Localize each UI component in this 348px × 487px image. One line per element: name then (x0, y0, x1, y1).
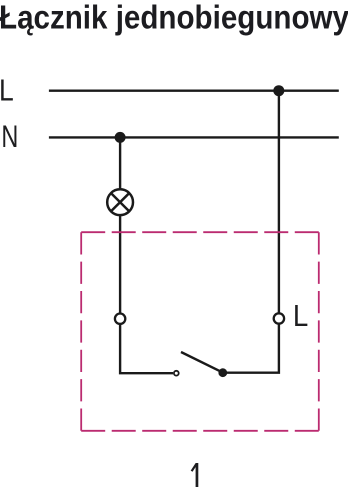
lamp E1 (cross stroke 2) (111, 193, 129, 211)
net label L (line L) (0, 73, 14, 107)
enclosure dashed box: top edge (81, 231, 319, 233)
wire: lamp down to left terminal (119, 215, 121, 314)
svg-text:Łącznik jednobiegunowy: Łącznik jednobiegunowy (0, 0, 348, 36)
wire: N supply line (49, 136, 339, 138)
net label N (line N) (1, 119, 18, 154)
svg-text:N: N (1, 119, 18, 154)
terminal label L (inside box) (293, 299, 308, 334)
wire: left terminal down and right to switch contact (120, 324, 173, 373)
wire: L supply line (49, 89, 339, 91)
lamp E1 (cross stroke 1) (111, 193, 129, 211)
wire: N junction down to lamp (119, 137, 121, 189)
enclosure dashed box: bottom edge (81, 430, 319, 432)
wire: right terminal up to L junction (278, 91, 280, 314)
junction on N line (115, 132, 126, 143)
lamp E1 (circle) (107, 189, 133, 215)
enclosure dashed box: left edge (80, 232, 82, 431)
svg-text:L: L (0, 73, 14, 107)
switch fixed contact (small open circle) (174, 371, 179, 376)
label 1 (gang number) (192, 463, 197, 487)
terminal (left, open circle) (115, 314, 125, 324)
terminal (right, open circle) (274, 313, 284, 323)
switch pivot (filled dot) (218, 368, 227, 377)
svg-text:L: L (293, 299, 308, 334)
wire: pivot right and up to right terminal (223, 324, 279, 373)
switch lever S1 (181, 352, 223, 373)
enclosure dashed box: right edge (318, 232, 320, 431)
junction on L line (273, 85, 284, 96)
